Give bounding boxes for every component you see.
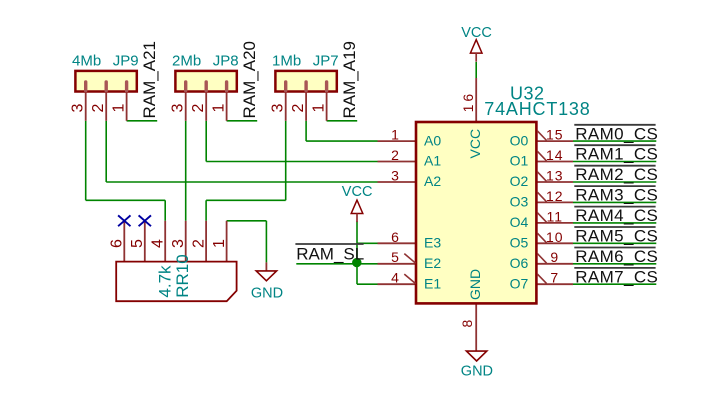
svg-text:1: 1	[310, 104, 327, 113]
svg-text:RAM2_CS: RAM2_CS	[575, 165, 658, 184]
svg-text:O5: O5	[510, 235, 529, 251]
svg-text:GND: GND	[467, 269, 483, 300]
svg-text:1: 1	[210, 104, 227, 113]
svg-text:2: 2	[290, 104, 307, 113]
svg-text:8: 8	[459, 320, 475, 328]
svg-text:2: 2	[190, 104, 207, 113]
svg-text:5: 5	[391, 249, 400, 265]
svg-text:4.7k: 4.7k	[156, 265, 175, 298]
svg-text:O7: O7	[510, 275, 529, 291]
svg-text:RAM_A19: RAM_A19	[340, 41, 359, 118]
svg-text:3: 3	[170, 104, 187, 113]
svg-text:JP7: JP7	[313, 53, 339, 70]
svg-text:1Mb: 1Mb	[272, 53, 301, 70]
svg-text:2: 2	[90, 104, 107, 113]
svg-text:GND: GND	[251, 285, 283, 301]
svg-text:VCC: VCC	[467, 129, 483, 159]
svg-text:3: 3	[270, 104, 287, 113]
svg-text:VCC: VCC	[461, 25, 492, 41]
svg-text:JP9: JP9	[113, 53, 139, 70]
svg-text:1: 1	[391, 127, 400, 143]
svg-text:O3: O3	[510, 194, 529, 210]
svg-text:RAM_SL: RAM_SL	[296, 244, 364, 263]
svg-text:A2: A2	[424, 173, 441, 189]
svg-text:74AHCT138: 74AHCT138	[484, 99, 590, 119]
svg-text:4: 4	[391, 270, 400, 286]
svg-text:4Mb: 4Mb	[72, 53, 101, 70]
svg-text:1: 1	[211, 239, 228, 248]
svg-text:E1: E1	[424, 275, 441, 291]
svg-text:2Mb: 2Mb	[172, 53, 201, 70]
svg-text:15: 15	[546, 127, 564, 143]
svg-text:RR10: RR10	[173, 254, 192, 297]
svg-text:5: 5	[129, 239, 146, 248]
svg-text:1: 1	[110, 104, 127, 113]
svg-text:E3: E3	[424, 235, 441, 251]
svg-text:RAM5_CS: RAM5_CS	[575, 227, 658, 246]
svg-text:GND: GND	[461, 364, 493, 380]
svg-text:A1: A1	[424, 153, 441, 169]
svg-text:14: 14	[546, 147, 564, 163]
svg-text:O0: O0	[510, 132, 529, 148]
svg-text:10: 10	[546, 229, 564, 245]
svg-text:RAM_A21: RAM_A21	[140, 41, 159, 118]
svg-text:6: 6	[391, 229, 400, 245]
svg-text:A0: A0	[424, 132, 441, 148]
svg-text:RAM_A20: RAM_A20	[240, 41, 259, 118]
svg-text:16: 16	[460, 91, 476, 113]
svg-text:RAM0_CS: RAM0_CS	[575, 124, 658, 143]
svg-text:O1: O1	[510, 153, 529, 169]
svg-text:RAM4_CS: RAM4_CS	[575, 206, 658, 225]
svg-text:O4: O4	[510, 214, 529, 230]
svg-text:7: 7	[550, 270, 559, 286]
svg-text:2: 2	[391, 147, 400, 163]
svg-text:E2: E2	[424, 255, 441, 271]
svg-text:6: 6	[109, 239, 126, 248]
svg-text:JP8: JP8	[213, 53, 239, 70]
svg-text:3: 3	[170, 239, 187, 248]
svg-text:9: 9	[550, 249, 559, 265]
svg-text:12: 12	[546, 188, 564, 204]
svg-text:O6: O6	[510, 255, 529, 271]
svg-text:2: 2	[190, 239, 207, 248]
svg-text:11: 11	[547, 208, 564, 224]
svg-text:RAM1_CS: RAM1_CS	[575, 145, 658, 164]
svg-text:RAM6_CS: RAM6_CS	[575, 247, 658, 266]
svg-text:RAM3_CS: RAM3_CS	[575, 186, 658, 205]
svg-text:VCC: VCC	[342, 184, 373, 200]
svg-text:O2: O2	[510, 173, 529, 189]
svg-text:3: 3	[391, 167, 400, 183]
svg-text:3: 3	[70, 104, 87, 113]
svg-text:4: 4	[149, 239, 166, 248]
svg-text:RAM7_CS: RAM7_CS	[575, 267, 658, 286]
svg-text:13: 13	[546, 167, 564, 183]
